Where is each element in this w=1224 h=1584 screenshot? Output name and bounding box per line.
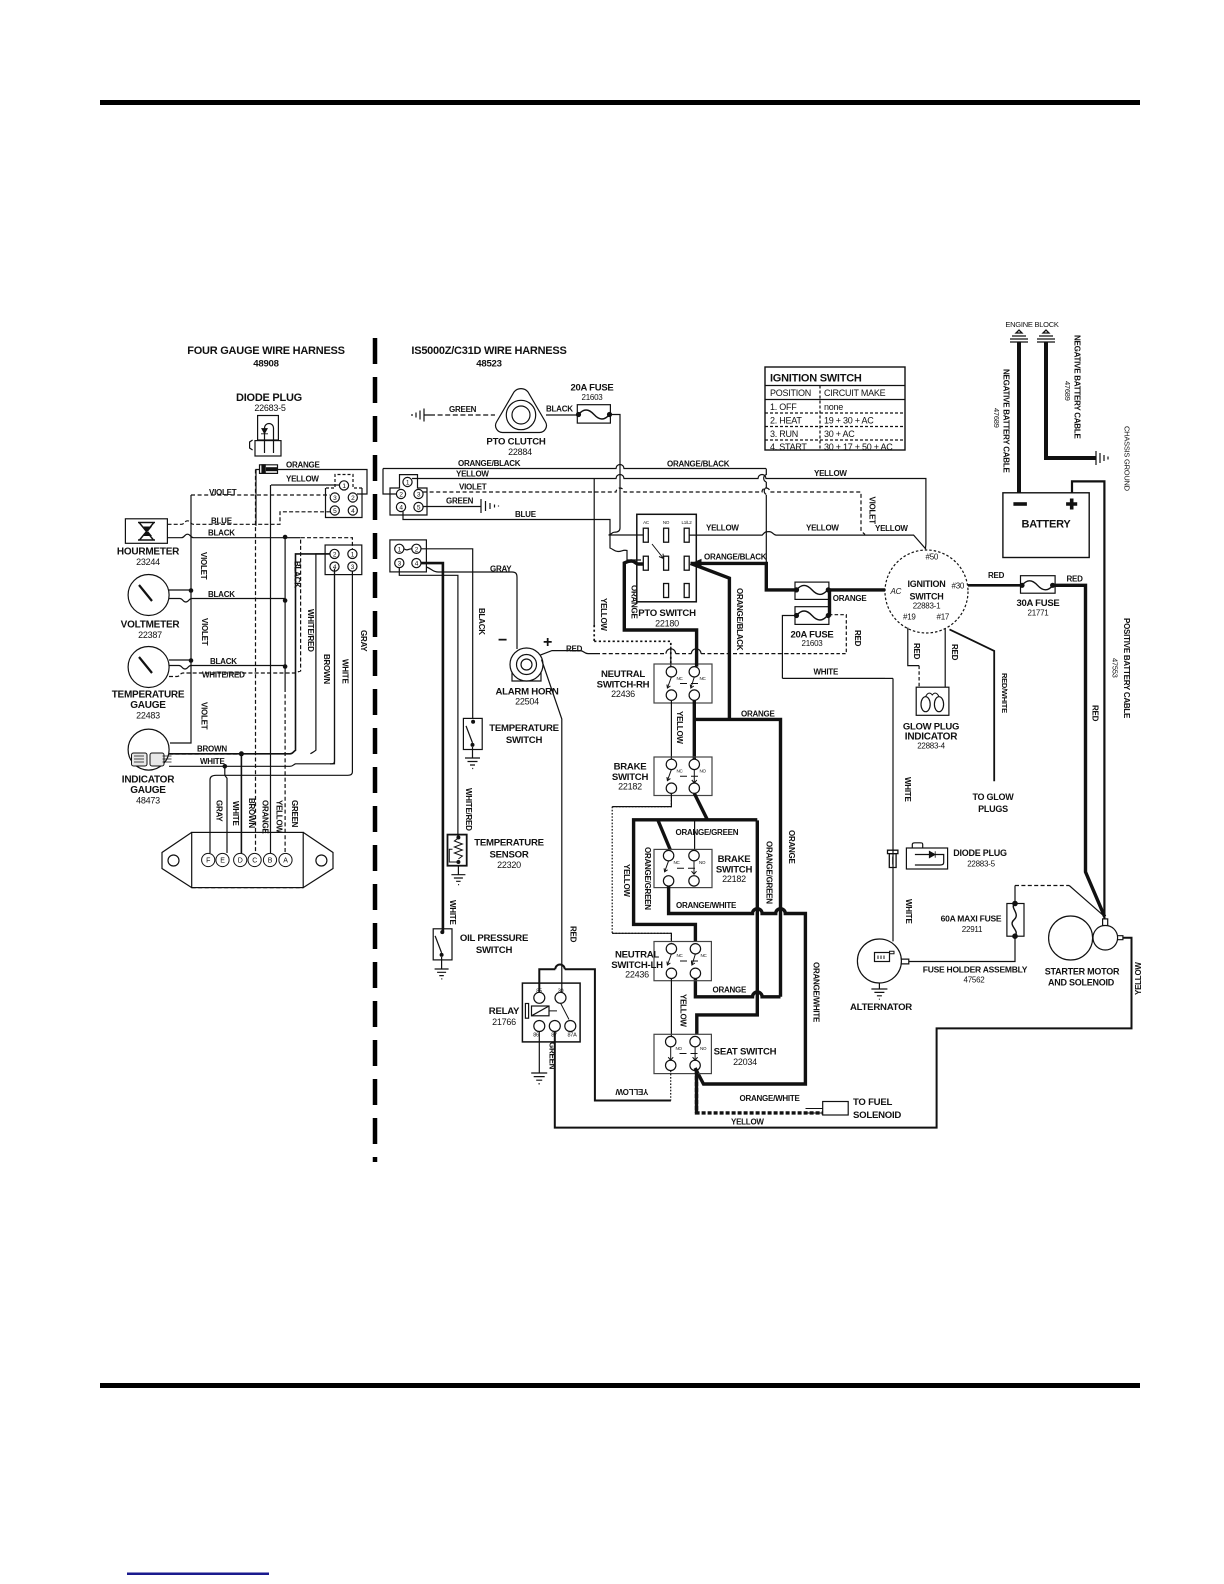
svg-text:E: E [220,858,225,865]
svg-text:#50: #50 [926,553,939,562]
svg-text:BROWN: BROWN [197,745,227,754]
svg-text:30A FUSE: 30A FUSE [1016,598,1059,609]
wire WHITE to pin E [225,766,227,853]
wire relay 85 up and right to seat switch BL [539,969,671,1100]
svg-text:GREEN: GREEN [449,405,477,414]
temperature switch [463,718,559,749]
wire YELLOW bus to ignition #50 [412,475,926,550]
svg-text:BRAKE: BRAKE [718,854,752,865]
ground (relay 86) [531,1073,547,1084]
wire ORANGE/WHITE thick: brake2 BL to seat region rail [669,886,806,1084]
wire ORANGE (diode plug to conn pin2) [278,470,368,495]
svg-text:21603: 21603 [582,393,604,402]
label ORANGE/BLACK vertical (x=729) [735,588,744,651]
starter motor and solenoid [1045,916,1123,988]
fuse F2 20A FUSE 21603 (upper) [794,582,831,599]
label VIOLET vertical lower [200,618,209,646]
svg-text:A: A [283,858,288,865]
label ORANGE vertical bottom [261,800,270,835]
positive battery cable 47553 [1072,481,1104,919]
svg-text:VIOLET: VIOLET [459,483,487,492]
svg-text:WHITE: WHITE [903,777,912,802]
wire ORANGE/BLACK thick: PTO to fuse F2 and ignition AC [691,563,886,590]
svg-text:22180: 22180 [655,619,679,629]
svg-text:ORANGE: ORANGE [833,594,868,603]
label BROWN vertical bottom [247,798,256,828]
svg-text:WHITE: WHITE [200,757,225,766]
wire GREEN vertical bus to pin A [284,537,286,688]
wire WHITE indicator to conn pin4 [169,569,335,767]
svg-text:−: − [498,632,507,649]
svg-text:PTO CLUTCH: PTO CLUTCH [486,437,545,448]
svg-text:NEGATIVE BATTERY CABLE: NEGATIVE BATTERY CABLE [1002,369,1011,473]
svg-text:4: 4 [415,561,419,568]
brake switch 22182 (lower) [654,849,752,887]
wire ORANGE thick rail to seat TR [697,820,758,1034]
svg-text:30 + 17 + 50 + AC: 30 + 17 + 50 + AC [824,442,893,452]
svg-text:C: C [252,858,257,865]
wire YELLOW seat BL down to relay-85 rail (dashed) [670,1071,672,1101]
svg-text:1: 1 [406,480,410,487]
svg-text:30: 30 [558,989,564,995]
inline connector on white wire [888,850,898,867]
PTO clutch 22884 [486,389,546,457]
svg-text:YELLOW: YELLOW [622,864,631,897]
svg-text:YELLOW: YELLOW [615,1087,648,1096]
svg-text:NO: NO [700,1046,707,1051]
svg-text:87A: 87A [567,1033,577,1039]
svg-text:3: 3 [351,564,355,571]
wire GREEN short to ground [423,506,481,508]
svg-text:47553: 47553 [1111,658,1120,678]
svg-text:GRAY: GRAY [359,630,368,652]
connector CL2 (4-pin) [325,545,362,575]
svg-text:48908: 48908 [253,359,279,370]
svg-text:YELLOW: YELLOW [706,524,739,533]
svg-text:RED: RED [950,644,959,661]
svg-text:BLACK: BLACK [546,405,573,414]
svg-text:22436: 22436 [611,689,635,699]
svg-text:21603: 21603 [802,639,824,648]
svg-text:BROWN: BROWN [247,798,256,828]
diode plug 22683-5 symbol [250,416,281,457]
dashed box around lower fuse label [786,615,846,654]
svg-text:YELLOW: YELLOW [275,800,284,833]
connector CL1 (5-pin) [326,475,363,518]
svg-text:TEMPERATURE: TEMPERATURE [112,690,185,701]
wire WHITE/RED conn R2 pin3 to temperature sensor [399,568,458,837]
SECTION: separator dashed divider [373,338,378,1162]
svg-text:BLUE: BLUE [515,510,537,519]
svg-text:NO: NO [663,520,670,525]
label WHITE/RED vertical [306,609,315,652]
svg-text:SEAT SWITCH: SEAT SWITCH [714,1047,777,1058]
wire YELLOW PTO switch to ignition #50 [689,532,926,550]
svg-text:BLACK: BLACK [293,561,302,588]
svg-text:POSITION: POSITION [770,388,811,398]
svg-text:3. RUN: 3. RUN [770,429,798,439]
wire BLACK (hourmeter to pin4-line) [168,534,286,538]
svg-text:ORANGE/BLACK: ORANGE/BLACK [704,553,767,562]
diode plug 22683-5 label [236,392,302,413]
svg-text:FOUR GAUGE WIRE HARNESS: FOUR GAUGE WIRE HARNESS [187,345,344,357]
svg-text:NEGATIVE BATTERY CABLE: NEGATIVE BATTERY CABLE [1073,335,1082,439]
svg-text:RED/WHITE: RED/WHITE [1000,673,1009,713]
wire ORANGE/GREEN thick: brake1 BR to brake2 and neutral LH TR [634,793,758,941]
svg-text:ORANGE/GREEN: ORANGE/GREEN [676,828,739,837]
wire WHITE fuse F3 to diode plug and alternator [782,616,893,942]
title IS5000Z/C31D WIRE HARNESS 48523 [411,345,566,370]
wire BLACK temp gauge [169,666,285,670]
wire ORANGE vertical bus to pin C [255,470,257,854]
voltmeter 22387 [121,575,181,641]
fuse 30A FUSE 21771 [1016,576,1059,618]
wire GRAY conn R2 to alarm horn [426,567,517,649]
svg-text:GRAY: GRAY [215,800,224,822]
svg-text:ORANGE: ORANGE [261,800,270,835]
svg-text:1. OFF: 1. OFF [770,402,797,412]
wire temp gauge to violet bus junction [169,659,191,661]
inline connector on orange wire [260,465,278,474]
svg-text:WHITE: WHITE [904,899,913,924]
wire RED ignition #30 to 30A fuse [968,584,1022,587]
svg-text:BLACK: BLACK [208,529,235,538]
svg-text:YELLOW: YELLOW [599,598,608,631]
svg-text:GAUGE: GAUGE [130,785,166,796]
wire WHITE/RED temp gauge to conn pin1 [169,538,352,677]
svg-text:YELLOW: YELLOW [286,475,319,484]
svg-text:2: 2 [399,492,403,499]
ground (chassis) [1096,426,1132,492]
label BLACK vertical [293,561,302,588]
label WHITE vertical bottom [231,801,240,826]
svg-text:47562: 47562 [964,976,986,985]
svg-text:OIL PRESSURE: OIL PRESSURE [460,933,529,944]
svg-text:AND SOLENOID: AND SOLENOID [1048,978,1115,988]
svg-text:21771: 21771 [1028,609,1050,618]
svg-text:21766: 21766 [492,1017,516,1027]
seat switch 22034 [654,1034,777,1073]
svg-text:NC: NC [674,860,681,865]
svg-text:YELLOW: YELLOW [675,711,684,744]
svg-text:NC: NC [701,953,708,958]
svg-text:+: + [543,634,552,651]
wire YELLOW neutral RH BL to brake1 TL [670,700,672,759]
svg-text:RED: RED [566,645,583,654]
wire BROWN indicator to conn pin2 [169,554,330,754]
svg-text:IGNITION: IGNITION [908,579,946,589]
svg-text:4: 4 [351,508,355,515]
wire VIOLET bus [423,488,865,535]
wire GREEN dashed to PTO clutch [430,414,495,416]
svg-text:ORANGE/BLACK: ORANGE/BLACK [735,588,744,651]
svg-text:POSITIVE BATTERY CABLE: POSITIVE BATTERY CABLE [1122,618,1131,719]
svg-text:2: 2 [351,495,355,502]
battery [1003,493,1089,558]
svg-text:WHITE/RED: WHITE/RED [306,609,315,652]
svg-text:YELLOW: YELLOW [456,470,489,479]
svg-text:TO GLOW: TO GLOW [972,792,1014,802]
neutral switch RH 22436 [597,664,712,703]
temperature gauge 22483 [112,647,185,721]
wire ORANGE thick horizontals to rails [694,719,780,996]
fuse F3 20A FUSE 21603 (lower) [794,607,831,625]
label YELLOW (flipped) [615,1087,648,1096]
relay 21766 [489,983,580,1042]
svg-text:22387: 22387 [138,630,162,640]
svg-text:47689: 47689 [992,408,1001,428]
svg-text:VIOLET: VIOLET [199,552,208,580]
wire RED alarm horn + down to relay 30 [542,660,562,993]
negative battery cable 47689 (to chassis ground) [1046,342,1096,458]
svg-text:WHITE/RED: WHITE/RED [464,788,473,831]
svg-text:4. START: 4. START [770,442,807,452]
wire conn R1 pin2 from orange/black bus [383,469,396,495]
svg-text:D: D [238,858,243,865]
ignition switch 22883-1 [885,550,968,633]
svg-text:1: 1 [342,483,346,490]
svg-text:BRAKE: BRAKE [614,762,648,773]
wire GREEN relay 86 to ground [538,1032,540,1074]
svg-text:TEMPERATURE: TEMPERATURE [474,838,544,849]
svg-text:GAUGE: GAUGE [130,700,166,711]
svg-text:23244: 23244 [136,557,160,567]
svg-text:NO: NO [699,860,706,865]
svg-text:RED: RED [988,571,1005,580]
indicator gauge 48473 [122,729,175,805]
svg-text:4: 4 [399,505,403,512]
wire YELLOW neutral LH BL to seat TL [670,979,672,1037]
svg-text:VOLTMETER: VOLTMETER [121,620,181,631]
svg-text:ORANGE: ORANGE [630,585,639,620]
svg-text:22182: 22182 [722,874,746,884]
svg-text:PLUGS: PLUGS [978,804,1008,814]
negative battery cable 47689 (to battery -) [1017,342,1021,493]
ground (conn R1 green) [481,499,499,513]
wire BROWN to pin D [240,754,242,853]
label GREEN vertical bottom [290,800,299,828]
label GRAY vertical bottom [215,800,224,822]
svg-text:47689: 47689 [1063,381,1072,401]
svg-text:ORANGE: ORANGE [787,830,796,865]
label VIOLET vertical upper [199,552,208,580]
svg-text:GREEN: GREEN [446,497,474,506]
svg-text:1: 1 [351,551,355,558]
wire ORANGE/BLACK thick diag from PTO arrow down to orange rail [691,563,730,719]
svg-text:VIOLET: VIOLET [200,702,209,730]
wire RED 30A fuse to starter (thick) [1053,585,1105,916]
fuse F1 20A FUSE 21603 [570,383,613,424]
svg-text:5: 5 [333,508,337,515]
svg-text:RED: RED [1067,575,1084,584]
wire WHITE vertical from pin4 [330,571,335,764]
svg-text:RED: RED [853,630,862,647]
svg-text:TO FUEL: TO FUEL [853,1097,893,1108]
wire VIOLET dashed (to conn pin3) [191,494,330,496]
svg-text:RELAY: RELAY [489,1006,520,1017]
svg-text:SENSOR: SENSOR [489,850,528,861]
svg-text:48523: 48523 [476,359,501,370]
svg-text:22483: 22483 [136,711,160,721]
wire ORANGE/BLACK bus [383,465,766,469]
svg-text:22182: 22182 [618,782,642,792]
wire ORANGE/BLACK bus drop to fuse corner [764,469,767,564]
svg-text:YELLOW: YELLOW [814,469,847,478]
svg-text:ALTERNATOR: ALTERNATOR [850,1002,912,1013]
svg-text:2: 2 [415,546,419,553]
label ENGINE BLOCK [1005,320,1059,329]
svg-text:RED: RED [1091,705,1100,722]
wire WHITE conn R2 pin4 to oil pressure switch [421,563,443,932]
label VIOLET vertical at ignition [868,497,877,525]
svg-text:22884: 22884 [508,447,532,457]
wire thick neutral RH BR down to brake1 TR [693,700,696,759]
svg-text:STARTER MOTOR: STARTER MOTOR [1045,967,1120,977]
svg-text:BLACK: BLACK [210,657,237,666]
svg-text:#17: #17 [937,613,950,622]
svg-text:YELLOW: YELLOW [806,524,839,533]
wire voltmeter to violet bus junction [169,589,191,591]
title FOUR GAUGE WIRE HARNESS 48908 [187,345,344,370]
wire ORANGE fuse F2 to fuse F3 (thick) [828,590,831,617]
svg-text:YELLOW: YELLOW [875,524,908,533]
svg-text:ORANGE/BLACK: ORANGE/BLACK [667,460,730,469]
neutral switch LH 22436 [611,942,711,981]
svg-text:NO: NO [676,1046,683,1051]
diode plug 22883-5 (right) [906,843,1007,869]
ground (PTO clutch green) [412,409,430,422]
connector CR2 (4-pin) [390,540,427,572]
wire VIOLET vertical bus [170,495,191,743]
svg-text:NC: NC [700,676,707,681]
svg-text:CIRCUIT MAKE: CIRCUIT MAKE [824,388,886,398]
label TO GLOW PLUGS [972,792,1014,814]
svg-text:20A FUSE: 20A FUSE [570,383,613,394]
alternator [850,939,912,1013]
wire ORANGE/WHITE thick seat BR to horizontal and fuel solenoid [697,1070,823,1113]
svg-text:4: 4 [333,564,337,571]
svg-text:5: 5 [417,505,421,512]
svg-text:2: 2 [333,551,337,558]
svg-text:AC: AC [643,520,650,525]
svg-text:TEMPERATURE: TEMPERATURE [489,723,559,734]
ground (engine block 1) [1010,330,1028,342]
connector CR1 (5-pin) [390,475,427,515]
wire BLACK conn R2 pin2 to temperature switch [421,549,473,719]
brake switch 22182 (upper) [612,757,712,796]
wire YELLOW brake1 BL to neutral LH TL (dotted) [612,793,671,942]
svg-text:GRAY: GRAY [490,565,512,574]
label 20A FUSE 21603 (lower fuse, inside dashed box) [790,630,833,649]
svg-text:FUSE HOLDER ASSEMBLY: FUSE HOLDER ASSEMBLY [923,965,1028,975]
svg-text:WHITE: WHITE [231,801,240,826]
svg-text:BLUE: BLUE [211,517,233,526]
svg-text:IGNITION SWITCH: IGNITION SWITCH [770,373,862,385]
ground (oil pressure switch) [435,957,449,979]
label GRAY vertical [359,630,368,652]
svg-text:ORANGE/WHITE: ORANGE/WHITE [812,962,821,1023]
svg-text:NC: NC [677,676,684,681]
svg-text:WHITE: WHITE [341,659,350,684]
ground (temperature switch) [465,747,480,769]
svg-text:48473: 48473 [136,796,160,806]
wire RED/WHITE ignition #17 to glow plugs [950,629,995,781]
wire YELLOW bus drop (x=594) [593,479,595,626]
svg-text:AC: AC [890,587,902,596]
alarm horn 22504 [495,632,558,707]
wire YELLOW vertical bus to pin B [270,485,272,853]
svg-text:ORANGE: ORANGE [286,461,321,470]
svg-text:ORANGE/WHITE: ORANGE/WHITE [740,1094,801,1103]
svg-text:19 + 30 + AC: 19 + 30 + AC [824,416,874,426]
SECTION: page rules [100,100,1140,105]
svg-text:#30: #30 [952,582,965,591]
wire RED ignition #17 to glow plug indicator [944,628,946,687]
wire fuse F1 to PTO switch pin (drop at x=620) [609,415,644,536]
svg-text:3: 3 [398,561,402,568]
svg-text:30 + AC: 30 + AC [824,429,855,439]
svg-text:RED: RED [912,643,921,660]
wire BLACK voltmeter [169,599,285,603]
temperature sensor 22320 [448,835,545,870]
wire RED alarm horn + to fuse box (dashed) [540,651,596,656]
svg-text:INDICATOR: INDICATOR [122,775,175,786]
hourmeter 23244 [117,519,180,567]
svg-text:WHITE: WHITE [814,668,839,677]
svg-text:SWITCH: SWITCH [910,592,944,602]
svg-text:SWITCH: SWITCH [506,735,543,746]
svg-text:22883-5: 22883-5 [967,860,995,869]
svg-text:22504: 22504 [515,697,539,707]
svg-text:F: F [206,858,210,865]
svg-text:NC: NC [677,769,684,774]
svg-text:22436: 22436 [625,970,649,980]
svg-text:NO: NO [700,769,707,774]
svg-text:ORANGE/BLACK: ORANGE/BLACK [458,459,521,468]
svg-text:VIOLET: VIOLET [868,497,877,525]
svg-text:86: 86 [533,1033,539,1039]
svg-text:ORANGE/GREEN: ORANGE/GREEN [643,847,652,910]
svg-text:22911: 22911 [962,925,983,934]
svg-text:DIODE PLUG: DIODE PLUG [953,848,1007,858]
ground (temperature sensor) [451,866,465,885]
wire BLUE (hourmeter to pin5) [168,512,331,525]
wire fuse holder assembly [909,936,1015,961]
svg-text:ORANGE: ORANGE [741,710,776,719]
svg-text:22883-1: 22883-1 [913,602,941,611]
wire 60A fuse to starter solenoid [1015,886,1105,917]
svg-text:22034: 22034 [733,1057,757,1067]
svg-text:ENGINE BLOCK: ENGINE BLOCK [1005,320,1059,329]
svg-text:IS5000Z/C31D WIRE HARNESS: IS5000Z/C31D WIRE HARNESS [411,345,566,357]
svg-text:WHITE/RED: WHITE/RED [202,671,245,680]
svg-text:#19: #19 [903,613,916,622]
wire BLACK PTO clutch to fuse [546,414,579,416]
svg-text:22320: 22320 [497,860,521,870]
svg-text:CHASSIS GROUND: CHASSIS GROUND [1123,426,1132,492]
svg-text:YELLOW: YELLOW [731,1118,764,1127]
svg-text:ORANGE/GREEN: ORANGE/GREEN [765,841,774,904]
svg-text:22883-4: 22883-4 [917,742,945,751]
wire RED ignition #19 to glow plug indicator [908,628,919,666]
wire YELLOW relay 87 to starter loop (bottom rail) [555,938,1132,1128]
svg-text:3: 3 [333,495,337,502]
svg-text:GREEN: GREEN [290,800,299,828]
wire GRAY conn pin3 down and to pin F [210,571,352,853]
label VIOLET at indicator [200,702,209,730]
wire BROWN vertical from pin2 [310,549,334,754]
wire dashed to neutral-RH TL pin [594,625,671,667]
